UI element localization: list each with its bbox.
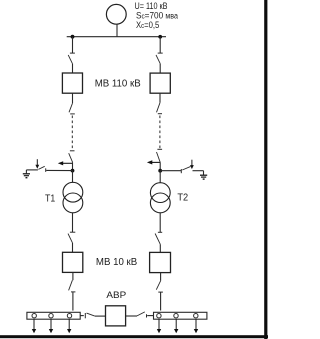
svg-text:U= 110 кВ: U= 110 кВ <box>135 0 168 11</box>
wire: T1 down to disconnector <box>72 213 74 232</box>
disconnector: left above busbar <box>69 280 76 292</box>
switch: АВР left side <box>85 313 95 318</box>
feeder arrow: right busbar 1 <box>157 319 161 333</box>
disconnector: right above busbar <box>156 281 163 292</box>
feeder arrow: left busbar 1 <box>32 319 36 333</box>
feeder arrow: left busbar 2 <box>49 319 53 333</box>
transformer T1 <box>63 182 83 213</box>
svg-text:Т1: Т1 <box>45 194 56 205</box>
disconnector: left above breaker МВ 110 <box>68 53 75 64</box>
circuit breaker: МВ 10 кВ right <box>150 252 171 272</box>
wire: into left МВ 110 breaker <box>72 64 74 73</box>
wire: right to branch node <box>159 162 161 170</box>
disconnector: right above breaker МВ 110 <box>156 53 163 64</box>
disconnector: left above МВ 10 breaker <box>68 232 75 243</box>
switch: АВР right side <box>137 312 147 318</box>
disconnector: left below breaker <box>69 103 75 114</box>
page edge: bottom scan bar (decorative) <box>0 335 268 338</box>
svg-text:Т2: Т2 <box>177 192 188 203</box>
wire: below left МВ 10 breaker <box>72 272 74 280</box>
ground: left earth symbol <box>23 174 30 178</box>
svg-text:Sc=700 мва: Sc=700 мва <box>136 10 178 20</box>
wire: below right МВ 110 breaker <box>159 93 161 103</box>
wire: node down to transformer T2 <box>159 171 161 183</box>
wire: dashed line section left (cable) <box>71 116 73 150</box>
wire: source down to 110kV bus <box>116 24 118 37</box>
disconnector: right above line tap <box>157 149 163 162</box>
wire: below left МВ 110 breaker <box>72 93 74 103</box>
svg-text:Xc=0,5: Xc=0,5 <box>136 20 159 30</box>
wire: right earthing switch to ground <box>193 171 204 175</box>
node: right earthing branch junction <box>158 169 162 173</box>
feeder arrow: left busbar 3 <box>67 319 71 333</box>
page edge: right scan bar (decorative) <box>264 0 267 339</box>
device: АВР automatic transfer box <box>106 306 126 326</box>
svg-text:АВР: АВР <box>106 290 126 301</box>
wire: left drop from bus <box>72 37 74 53</box>
svg-text:МВ 110 кВ: МВ 110 кВ <box>95 79 141 90</box>
arrow: left outgoing line arrow <box>58 161 73 165</box>
wire: T2 down to disconnector <box>159 213 161 233</box>
bus: 110 kV busbar <box>67 36 166 38</box>
wire: left busbar to АВР switch <box>80 315 84 317</box>
earthing switch: left (tick, blade, drive arrow) <box>35 159 45 172</box>
wire: node down to transformer T1 <box>72 171 74 183</box>
wire: dashed line section right (cable) <box>159 116 161 149</box>
transformer T2 <box>150 183 170 213</box>
busbar: right 10 kV section <box>154 312 207 319</box>
disconnector: right below breaker <box>157 103 163 114</box>
wire: below right МВ 10 breaker <box>160 273 162 281</box>
wire: left earthing switch to ground <box>26 170 38 174</box>
feeder arrow: right busbar 2 <box>174 319 178 333</box>
wire: branch to left earthing switch <box>46 169 72 171</box>
wire: АВР box to right switch <box>126 315 137 317</box>
circuit breaker: МВ 10 кВ left <box>63 252 83 272</box>
node: left earthing branch junction <box>71 169 75 173</box>
power source: system supply circle <box>106 4 126 24</box>
wire: to right busbar <box>147 315 153 317</box>
wire: into АВР box <box>95 315 106 317</box>
wire: branch to right earthing switch <box>160 170 181 172</box>
busbar: left 10 kV section <box>27 312 80 319</box>
feeder arrow: right busbar 3 <box>194 319 198 333</box>
arrow: right outgoing line arrow <box>147 160 160 164</box>
svg-text:МВ 10 кВ: МВ 10 кВ <box>96 257 138 268</box>
wire: into right МВ 10 breaker <box>159 244 161 252</box>
earthing switch: right (tick, blade, drive arrow) <box>181 160 194 174</box>
wire: left to branch node <box>72 162 74 170</box>
node: left bus tap junction <box>71 35 75 39</box>
wire: into right МВ 110 breaker <box>159 64 161 74</box>
wire: down to left 10kV busbar <box>72 292 74 310</box>
wire: right drop from bus <box>159 37 161 53</box>
ground: right earth symbol <box>200 175 207 179</box>
wire: into left МВ 10 breaker <box>72 243 74 252</box>
disconnector: right above МВ 10 breaker <box>155 232 162 244</box>
disconnector: left above line tap <box>69 151 75 163</box>
circuit breaker: МВ 110 кВ left <box>62 73 82 93</box>
wire: down to right 10kV busbar <box>160 292 162 310</box>
node: right bus tap junction <box>158 35 162 39</box>
circuit breaker: МВ 110 кВ right <box>150 73 170 93</box>
